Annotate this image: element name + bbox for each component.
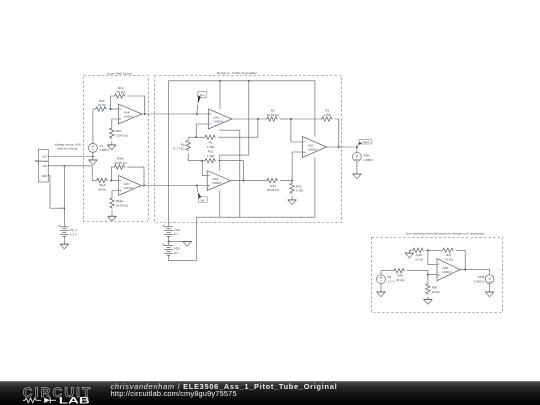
battery V3_1 (58, 225, 68, 237)
pressure sensor P1 block (38, 150, 48, 183)
ground below V4 (89, 160, 97, 165)
label R41 10 k (117, 86, 126, 94)
op-amp OA7 (119, 176, 142, 196)
label R49 23 k (396, 274, 405, 282)
wire OA3 plus input riser (292, 152, 302, 181)
node R1 left junction (195, 136, 197, 138)
ground below R33 (288, 200, 296, 205)
label R11 1 M (207, 150, 215, 158)
node OA3 plus node (291, 180, 293, 182)
label V3_1 3.3 V (70, 228, 78, 236)
label R1 1 M (207, 141, 215, 149)
svg-text:http://circuitlab.com/cmy8gu9y: http://circuitlab.com/cmy8gu9y75575 (111, 389, 237, 398)
wire V- supply rail (196, 216, 315, 218)
logo LAB solid text (59, 395, 91, 405)
wire R49 to plus node (407, 271, 437, 275)
wire OA2 minus input (202, 161, 207, 176)
wire VCC row turn down to Rleft (92, 166, 96, 181)
label VDD 9 V (174, 247, 181, 255)
node OA8 output junction (144, 113, 146, 115)
resistor Rleft (96, 178, 108, 182)
node OA5 plus node (427, 274, 429, 276)
label R47 71 k (445, 253, 454, 261)
title Design 2 - 3 Chip IA Amplifier (217, 71, 257, 75)
wire node to R33 (291, 181, 293, 183)
wire battery V3_1 positive lead (63, 166, 65, 227)
svg-text:1.656 V: 1.656 V (99, 148, 110, 152)
dashed box Level Shift Circuit (84, 76, 149, 222)
svg-text:1 MΩ: 1 MΩ (207, 145, 215, 149)
ground below Rbias (108, 216, 116, 221)
resistor R42 (95, 107, 107, 111)
svg-text:10 kΩ: 10 kΩ (117, 90, 126, 94)
wire OA1 minus input (196, 124, 208, 137)
svg-text:43.95 kΩ: 43.95 kΩ (114, 161, 127, 165)
wire V5 top lead (381, 271, 393, 275)
wire R41 to output (127, 96, 144, 114)
svg-text:71 kΩ: 71 kΩ (445, 257, 454, 261)
node OA3 minus node (290, 118, 292, 120)
logo resistor symbol (23, 398, 41, 403)
wire R11 to feedback riser (218, 161, 244, 181)
node OA5 output junction (464, 269, 466, 271)
resistor R48 (412, 248, 424, 252)
wire node to R3 (291, 118, 321, 120)
label Rleft 68 k (98, 183, 107, 191)
label VM2 1.588 V (474, 275, 485, 283)
ground below R56 (424, 299, 432, 304)
svg-text:68 kΩ: 68 kΩ (98, 188, 107, 192)
svg-text:Vin-: Vin- (200, 198, 205, 202)
node OA7 output junction (143, 185, 145, 187)
wire Rlefb to output (127, 167, 144, 185)
resistor R11 (204, 159, 216, 163)
svg-text:LAB: LAB (59, 395, 91, 405)
wire OA3 minus input riser (291, 119, 303, 142)
dashed box Design 2 IA Amplifier (155, 76, 342, 223)
node V4-OUT junction (92, 156, 94, 158)
wire OA2 V- pin (219, 191, 221, 218)
voltage source V4 (89, 144, 98, 153)
footer url text line (111, 389, 237, 398)
label R46 0.576 k (116, 129, 129, 137)
op-amp OA8 (118, 104, 141, 124)
wire R22 to node (280, 180, 292, 182)
battery VSS (163, 225, 173, 237)
svg-text:LM324: LM324 (442, 270, 452, 274)
ground at supply midpoint (183, 241, 191, 246)
svg-text:LM324: LM324 (212, 181, 222, 185)
label VM1 1.888 V (363, 154, 374, 162)
svg-text:30.66 kΩ: 30.66 kΩ (267, 113, 280, 117)
op-amp OA1 (208, 109, 232, 129)
wire OA3 V- pin (314, 158, 316, 218)
svg-text:1.2 V: 1.2 V (387, 279, 395, 283)
wire OA2 output row (231, 180, 267, 182)
voltmeter VM2 (485, 275, 494, 284)
wire V4 top lead to R42 (93, 109, 96, 144)
wire R47 to output riser (456, 250, 466, 269)
title Level Shift Circuit (107, 72, 131, 76)
svg-text:Vin+: Vin+ (200, 93, 206, 97)
wire OA5 output row (460, 270, 490, 275)
resistor Rlefb feedback (114, 165, 126, 169)
wire midpoint to ground (169, 240, 188, 242)
ground below V3_1 (60, 244, 68, 249)
node VCC-battery junction (63, 165, 65, 167)
wire VSS to VDD (168, 236, 170, 245)
wire V+ supply rail (169, 81, 315, 227)
svg-text:Level Shift Circuit: Level Shift Circuit (107, 72, 131, 76)
svg-text:Pressure: Pressure (35, 159, 48, 163)
wire V5 bottom lead (380, 284, 382, 292)
resistor R46 (110, 127, 114, 139)
logo diode symbol (44, 398, 56, 404)
dashed box Non-Inverting Level shift circuit (372, 238, 503, 313)
svg-text:71.77 kΩ: 71.77 kΩ (172, 147, 185, 151)
node OA3 output junction (338, 146, 340, 148)
wire R33 to ground (291, 196, 293, 200)
wire V4 bottom lead (92, 152, 94, 159)
wire R1 to feedback riser (218, 119, 258, 137)
label Rbias 38.53 k (116, 199, 129, 207)
node OA1 output feedback junction (257, 118, 259, 120)
label VSS 9 V (174, 228, 180, 236)
voltmeter VM1 (353, 152, 362, 161)
svg-text:3.3 V: 3.3 V (70, 232, 78, 236)
node OA8 feedback tap (110, 108, 112, 110)
wire OA1 V+ pin (219, 81, 221, 109)
node output flag tap (356, 146, 358, 148)
ground below V5 (377, 292, 385, 297)
svg-text:GND: GND (42, 175, 48, 178)
ground below R46 (108, 145, 116, 150)
wire VM1 top lead (356, 147, 358, 152)
node R11 left junction (201, 160, 203, 162)
resistor R47 feedback (442, 248, 454, 252)
svg-text:1 MΩ: 1 MΩ (207, 154, 215, 158)
wire OA7 feedback up (111, 167, 113, 180)
wire sensor GND to battery (48, 176, 64, 209)
note: voltage source used for testing (54, 142, 80, 150)
op-amp OA2 (207, 171, 231, 191)
wire OA1 output row (232, 118, 266, 120)
wire R56 to ground (427, 297, 429, 300)
ground below VM2 (485, 292, 493, 297)
svg-text:Design 2 - 3 Chip IA Amplifier: Design 2 - 3 Chip IA Amplifier (217, 71, 257, 75)
node supply midpoint (168, 240, 170, 242)
wire VM2 bottom lead (489, 284, 491, 292)
wire R42 to OA8 minus input (109, 108, 119, 110)
wire VDD return loop (169, 217, 197, 260)
wire OA2 V+ pin (220, 81, 249, 171)
resistor Rg (186, 140, 190, 152)
node OA7 feedback tap (110, 179, 112, 181)
label R33 1 M (296, 184, 304, 192)
svg-text:LM324: LM324 (124, 114, 134, 118)
svg-text:V: V (356, 153, 359, 158)
wire Rg top bend (187, 137, 189, 139)
node Vin- tap (196, 185, 198, 187)
node rail OA1 supply tap (219, 80, 221, 82)
svg-text:used for testing.: used for testing. (57, 147, 79, 151)
node OA2 output feedback junction (242, 180, 244, 182)
voltage source V5 (377, 275, 386, 284)
resistor R22 (266, 178, 278, 182)
label R22 30.66 k (267, 184, 280, 192)
title Non-Inverting Level shift circuit (406, 232, 485, 236)
label R48 23 k (415, 253, 424, 261)
wire R2 to node (280, 118, 291, 120)
label R42 10 k (98, 99, 107, 107)
svg-text:30.66 kΩ: 30.66 kΩ (267, 188, 280, 192)
sensor name label Pressure (35, 159, 48, 163)
resistor R3 (321, 117, 333, 121)
wire Rleft to OA7 minus input (110, 179, 119, 181)
svg-text:V: V (488, 276, 491, 281)
wire battery V3_1 negative lead (63, 236, 65, 244)
svg-text:10 kΩ: 10 kΩ (98, 103, 107, 107)
wire R3 to output riser (335, 119, 339, 147)
wire R46 to ground (111, 141, 113, 145)
resistor R2 (266, 117, 278, 121)
wire OA8 feedback up (111, 96, 114, 109)
svg-text:LM324: LM324 (214, 119, 224, 123)
wire OA8 output row (142, 113, 208, 115)
wire plus node to R56 (427, 275, 429, 283)
svg-text:1.588 V: 1.588 V (474, 279, 485, 283)
svg-text:1 MΩ: 1 MΩ (324, 113, 332, 117)
net flag Vin- (197, 186, 207, 202)
wire R48 to minus node (426, 249, 442, 251)
resistor R41 feedback (114, 94, 126, 98)
label R3 1 M (324, 109, 332, 117)
ground below VM1 (353, 174, 361, 179)
footer title text line (111, 382, 338, 391)
wire ground to R48 (409, 249, 412, 251)
label Rg 71.77 k (172, 142, 185, 150)
resistor R33 (290, 182, 294, 194)
label R2 30.66 k (267, 109, 280, 117)
node rail OA2 supply tap (248, 80, 250, 82)
svg-text:output: output (362, 140, 370, 144)
net flag output (357, 139, 372, 146)
svg-text:23 kΩ: 23 kΩ (396, 278, 405, 282)
wire sensor VCC row (48, 165, 92, 167)
wire OA3 output row (327, 146, 357, 148)
wire R1 row left (188, 136, 204, 138)
footer bar background (0, 381, 540, 405)
label V5 1.2 V (387, 275, 395, 283)
svg-text:Non-Inverting Level shift circ: Non-Inverting Level shift circuit (to ch… (406, 232, 485, 236)
resistor R49 (393, 269, 405, 273)
wire minus node down to OA5 (428, 250, 437, 264)
svg-text:23 kΩ: 23 kΩ (415, 257, 424, 261)
svg-text:LM324: LM324 (308, 147, 318, 151)
label Rlefb 43.95 k (114, 157, 127, 165)
op-amp OA5 (437, 259, 460, 281)
svg-text:1 MΩ: 1 MΩ (296, 189, 304, 193)
resistor R1 (204, 135, 216, 139)
label V4 1.656 V (99, 144, 110, 152)
wire OA7 plus input to Rbias (112, 191, 119, 198)
battery VDD (163, 244, 173, 256)
resistor R56 (426, 283, 430, 295)
wire Rg bottom bend (188, 153, 204, 161)
wire OA7 output row (141, 185, 207, 187)
wire Rbias to ground (111, 211, 113, 216)
label R56 91 k (432, 286, 441, 294)
node OA5 minus node (427, 249, 429, 251)
node GND-battery junction (63, 207, 65, 209)
wire sensor OUT row (48, 156, 93, 158)
svg-text:LM324: LM324 (124, 186, 134, 190)
svg-text:91 kΩ: 91 kΩ (432, 290, 441, 294)
svg-text:VCC: VCC (42, 165, 47, 168)
node Vin+ tap (196, 113, 198, 115)
net flag Vin+ (197, 91, 207, 113)
op-amp OA3 (303, 137, 327, 158)
wire OA1 V- pin (220, 129, 240, 217)
CircuitLab logo CIRCUIT outlined text (23, 385, 91, 400)
svg-text:1.888 V: 1.888 V (363, 158, 374, 162)
ground at R48 left (405, 250, 413, 257)
wire OA8 plus input to R46 (112, 119, 119, 127)
svg-text:0.576 kΩ: 0.576 kΩ (116, 134, 129, 138)
wire VM1 bottom lead (356, 161, 358, 173)
resistor Rbias (110, 197, 114, 209)
svg-text:38.53 kΩ: 38.53 kΩ (116, 203, 129, 207)
